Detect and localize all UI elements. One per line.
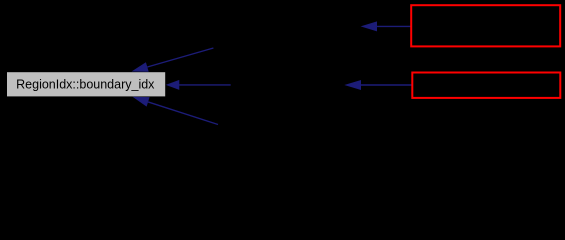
edge from red box 2 to hidden node 2 (344, 80, 411, 90)
node RegionIdx::boundary_idx (current node, grey) (7, 72, 165, 96)
edge from red box 1 to hidden node 1 (361, 21, 411, 31)
edge from hidden caller node 1 to RegionIdx::boundary_idx (132, 48, 214, 72)
edge from hidden caller node 3 to RegionIdx::boundary_idx (from below) (133, 97, 219, 125)
caller node box 2 (red outline, truncated label) (412, 73, 560, 98)
caller node box 1 (red outline, truncated label) (411, 5, 560, 46)
svg-text:RegionIdx::boundary_idx: RegionIdx::boundary_idx (16, 78, 155, 92)
edge from hidden caller node 2 to RegionIdx::boundary_idx (horizontal) (166, 80, 231, 90)
